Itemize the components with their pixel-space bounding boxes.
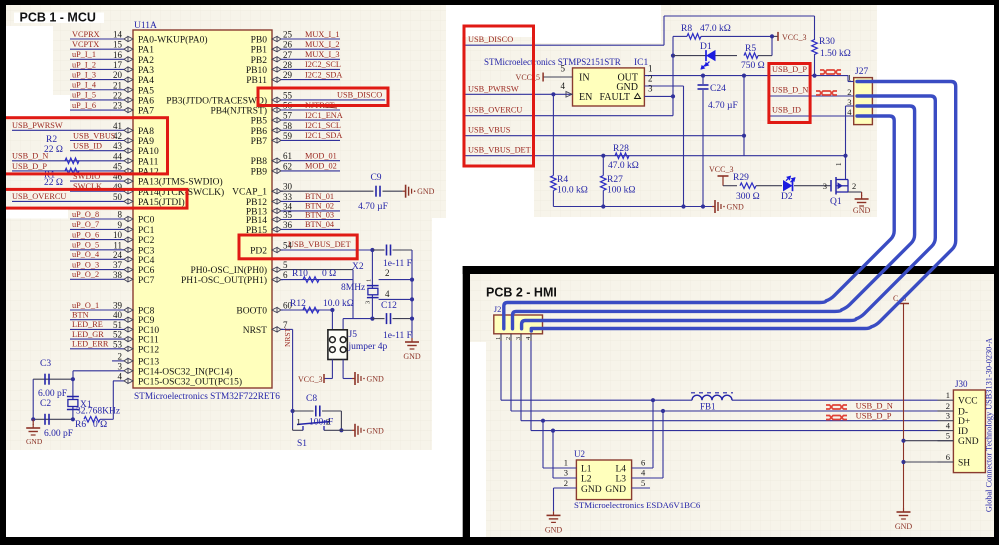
svg-text:uP_O_7: uP_O_7	[72, 220, 99, 229]
svg-text:PC8: PC8	[138, 307, 155, 317]
svg-text:22 Ω: 22 Ω	[44, 145, 63, 155]
svg-text:6.00 pF: 6.00 pF	[38, 389, 67, 399]
svg-text:1: 1	[946, 390, 950, 400]
svg-text:PA6: PA6	[138, 96, 154, 106]
svg-text:300 Ω: 300 Ω	[736, 192, 760, 202]
svg-text:IN: IN	[579, 73, 590, 84]
svg-text:R30: R30	[819, 37, 835, 47]
svg-text:47.0 kΩ: 47.0 kΩ	[700, 24, 731, 34]
svg-text:5: 5	[641, 478, 645, 488]
svg-text:C24: C24	[710, 84, 726, 94]
svg-text:40: 40	[113, 310, 123, 320]
svg-text:uP_I_1: uP_I_1	[72, 50, 96, 59]
svg-text:1: 1	[648, 64, 653, 74]
svg-text:750 Ω: 750 Ω	[741, 61, 765, 71]
svg-text:3: 3	[515, 337, 522, 340]
svg-text:PC7: PC7	[138, 276, 155, 286]
svg-text:4.70 µF: 4.70 µF	[708, 101, 738, 111]
svg-text:52: 52	[113, 330, 122, 340]
svg-text:GND: GND	[853, 206, 871, 215]
svg-text:J27: J27	[855, 67, 868, 77]
svg-text:33: 33	[283, 192, 293, 202]
svg-text:1: 1	[564, 458, 568, 468]
svg-text:BOOT0: BOOT0	[236, 307, 267, 317]
svg-text:PC3: PC3	[138, 246, 155, 256]
svg-text:uP_O_8: uP_O_8	[72, 210, 99, 219]
svg-text:5: 5	[946, 431, 950, 441]
svg-text:PB9: PB9	[251, 167, 268, 177]
svg-text:NRST: NRST	[283, 327, 292, 347]
svg-text:GND: GND	[727, 203, 745, 212]
svg-text:4.70 µF: 4.70 µF	[358, 202, 388, 212]
svg-text:0 Ω: 0 Ω	[322, 269, 336, 279]
svg-text:1: 1	[495, 337, 502, 340]
svg-text:LED_RE: LED_RE	[72, 320, 103, 329]
svg-text:I2C2_SCL: I2C2_SCL	[305, 60, 341, 69]
svg-text:29: 29	[283, 70, 293, 80]
svg-text:61: 61	[283, 151, 292, 161]
svg-text:uP_I_4: uP_I_4	[72, 81, 97, 90]
svg-text:R2: R2	[46, 135, 57, 145]
svg-text:GND: GND	[26, 437, 43, 446]
svg-text:GND: GND	[417, 187, 435, 196]
svg-text:PH0-OSC_IN(PH0): PH0-OSC_IN(PH0)	[190, 265, 267, 276]
svg-text:PC15-OSC32_OUT(PC15): PC15-OSC32_OUT(PC15)	[138, 376, 242, 387]
svg-text:PA8: PA8	[138, 127, 154, 137]
svg-text:uP_O_6: uP_O_6	[72, 230, 99, 239]
svg-text:R8: R8	[681, 24, 692, 34]
svg-text:EN: EN	[579, 92, 592, 103]
svg-text:PA13(JTMS-SWDIO): PA13(JTMS-SWDIO)	[138, 177, 223, 188]
svg-text:C9: C9	[370, 173, 381, 183]
svg-text:Global Connector Technology US: Global Connector Technology USB3131-30-0…	[985, 338, 994, 512]
svg-text:USB_VBUS_DET: USB_VBUS_DET	[468, 146, 531, 155]
svg-text:10.0 kΩ: 10.0 kΩ	[557, 186, 588, 196]
svg-text:D+: D+	[958, 417, 970, 427]
svg-text:USB_D_P: USB_D_P	[12, 162, 47, 171]
svg-text:STMicroelectronics STM32F722RE: STMicroelectronics STM32F722RET6	[134, 392, 280, 402]
svg-text:USB_OVERCU: USB_OVERCU	[12, 192, 66, 201]
svg-text:24: 24	[113, 250, 123, 260]
svg-text:23: 23	[113, 101, 123, 111]
svg-text:PB3(JTDO/TRACESWD): PB3(JTDO/TRACESWD)	[166, 95, 267, 106]
svg-text:35: 35	[283, 210, 293, 220]
svg-text:PC11: PC11	[138, 336, 159, 346]
svg-text:PA5: PA5	[138, 86, 154, 96]
svg-text:C3: C3	[40, 359, 51, 369]
svg-text:VCC_3: VCC_3	[782, 33, 806, 42]
svg-text:Q1: Q1	[830, 197, 842, 207]
svg-text:NRST: NRST	[243, 326, 267, 336]
svg-text:3: 3	[946, 411, 950, 421]
svg-text:SH: SH	[958, 459, 970, 469]
svg-text:38: 38	[113, 270, 123, 280]
svg-text:2: 2	[326, 417, 330, 427]
svg-text:L2: L2	[581, 475, 592, 485]
svg-text:PC2: PC2	[138, 236, 155, 246]
svg-text:BTN: BTN	[72, 311, 89, 320]
svg-text:25: 25	[283, 30, 293, 40]
svg-text:6: 6	[283, 270, 288, 280]
svg-text:2: 2	[385, 268, 390, 278]
svg-text:21: 21	[113, 80, 122, 90]
svg-text:R5: R5	[745, 44, 756, 54]
svg-text:45: 45	[113, 161, 123, 171]
svg-text:USB_ID: USB_ID	[772, 106, 801, 115]
svg-text:PB8: PB8	[251, 157, 268, 167]
svg-text:MOD_02: MOD_02	[305, 162, 337, 171]
svg-text:PC13: PC13	[138, 357, 159, 367]
svg-text:R12: R12	[290, 299, 306, 309]
svg-text:PA9: PA9	[138, 137, 154, 147]
svg-text:uP_I_5: uP_I_5	[72, 91, 96, 100]
svg-text:2: 2	[648, 74, 653, 84]
svg-text:PB14: PB14	[246, 216, 267, 226]
svg-text:USB_DISCO: USB_DISCO	[337, 91, 382, 100]
svg-text:PC14-OSC32_IN(PC14): PC14-OSC32_IN(PC14)	[138, 366, 233, 377]
svg-text:PCB 2 - HMI: PCB 2 - HMI	[486, 286, 557, 300]
svg-text:6: 6	[641, 458, 645, 468]
svg-text:FB1: FB1	[700, 402, 716, 412]
svg-text:LED_GR: LED_GR	[72, 330, 104, 339]
svg-text:58: 58	[283, 121, 293, 131]
svg-text:20: 20	[113, 70, 123, 80]
svg-text:J30: J30	[955, 379, 968, 389]
svg-text:PB2: PB2	[251, 56, 268, 66]
svg-text:I2C1_SCL: I2C1_SCL	[305, 121, 341, 130]
svg-text:62: 62	[283, 161, 292, 171]
svg-text:4: 4	[385, 289, 390, 299]
svg-text:6: 6	[946, 452, 950, 462]
svg-text:6.00 pF: 6.00 pF	[44, 429, 73, 439]
svg-text:PA7: PA7	[138, 107, 154, 117]
svg-text:50: 50	[113, 192, 123, 202]
svg-text:uP_O_2: uP_O_2	[72, 270, 99, 279]
svg-text:LED_ERR: LED_ERR	[72, 340, 109, 349]
svg-text:USB_VBUS_DET: USB_VBUS_DET	[288, 240, 351, 249]
svg-text:3: 3	[823, 181, 827, 191]
svg-text:1.50 kΩ: 1.50 kΩ	[820, 49, 851, 59]
svg-text:GND: GND	[545, 525, 563, 534]
svg-text:USB_D_N: USB_D_N	[772, 86, 808, 95]
svg-text:16: 16	[113, 50, 123, 60]
svg-text:4: 4	[561, 81, 566, 91]
svg-text:ID: ID	[958, 427, 968, 437]
svg-text:jumper 4p: jumper 4p	[348, 342, 388, 352]
svg-text:PA15(JTDI): PA15(JTDI)	[138, 197, 185, 208]
svg-text:59: 59	[283, 131, 293, 141]
svg-text:I2C1_SDA: I2C1_SDA	[305, 131, 342, 140]
svg-text:VCPRX: VCPRX	[72, 30, 100, 39]
svg-text:PC10: PC10	[138, 326, 159, 336]
svg-text:R29: R29	[733, 173, 749, 183]
svg-text:PC4: PC4	[138, 256, 155, 266]
svg-text:5: 5	[561, 64, 566, 74]
svg-text:VCC: VCC	[958, 397, 978, 407]
svg-text:USB_OVERCU: USB_OVERCU	[468, 106, 522, 115]
svg-text:X2: X2	[352, 262, 364, 272]
svg-text:D1: D1	[700, 42, 712, 52]
svg-text:PD2: PD2	[250, 247, 267, 257]
svg-text:PB1: PB1	[251, 46, 268, 56]
svg-text:GND: GND	[605, 485, 626, 495]
svg-text:36: 36	[283, 220, 293, 230]
svg-text:2: 2	[946, 401, 950, 411]
svg-text:26: 26	[283, 40, 293, 50]
svg-text:U11A: U11A	[134, 21, 157, 31]
svg-text:57: 57	[283, 111, 293, 121]
svg-text:100 kΩ: 100 kΩ	[607, 186, 635, 196]
svg-text:GND: GND	[581, 485, 602, 495]
svg-text:17: 17	[113, 60, 123, 70]
svg-text:R27: R27	[607, 175, 623, 185]
svg-text:37: 37	[113, 260, 123, 270]
svg-text:PB12: PB12	[246, 198, 267, 208]
svg-text:C2: C2	[40, 399, 51, 409]
svg-text:BTN_01: BTN_01	[305, 192, 334, 201]
svg-text:PB4(NJTRST): PB4(NJTRST)	[211, 106, 267, 117]
svg-text:USB_VBUS: USB_VBUS	[73, 131, 116, 140]
svg-text:2: 2	[118, 351, 123, 361]
svg-text:uP_I_3: uP_I_3	[72, 70, 96, 79]
svg-text:uP_I_2: uP_I_2	[72, 60, 96, 69]
svg-text:PC12: PC12	[138, 345, 159, 355]
svg-text:USB_D_P: USB_D_P	[772, 65, 807, 74]
svg-text:22 Ω: 22 Ω	[44, 178, 63, 188]
svg-text:39: 39	[113, 301, 123, 311]
svg-text:PA2: PA2	[138, 56, 154, 66]
svg-text:USB_VBUS: USB_VBUS	[468, 126, 511, 135]
svg-text:uP_O_4: uP_O_4	[72, 250, 100, 259]
svg-text:VCC_3: VCC_3	[298, 375, 322, 384]
svg-text:27: 27	[283, 50, 293, 60]
svg-text:2: 2	[505, 337, 512, 340]
svg-text:3: 3	[564, 468, 568, 478]
svg-text:VCC_3: VCC_3	[709, 165, 733, 174]
svg-text:PA4: PA4	[138, 76, 154, 86]
svg-text:9: 9	[118, 220, 123, 230]
svg-text:GND: GND	[403, 352, 421, 361]
svg-text:I2C1_ENA: I2C1_ENA	[305, 111, 343, 120]
svg-text:PA1: PA1	[138, 46, 154, 56]
svg-text:PCB 1 - MCU: PCB 1 - MCU	[20, 11, 96, 25]
svg-text:I2C2_SDA: I2C2_SDA	[305, 70, 342, 79]
svg-text:3: 3	[118, 361, 123, 371]
svg-text:3: 3	[648, 84, 653, 94]
svg-text:uP_O_1: uP_O_1	[72, 301, 99, 310]
svg-text:USB_DISCO: USB_DISCO	[468, 35, 513, 44]
svg-text:FAULT: FAULT	[599, 92, 630, 103]
svg-text:1: 1	[366, 279, 373, 282]
svg-text:S1: S1	[297, 439, 307, 449]
svg-text:PA11: PA11	[138, 157, 159, 167]
svg-text:USB_D_P: USB_D_P	[856, 410, 892, 420]
svg-text:GND: GND	[367, 375, 385, 384]
svg-text:10: 10	[113, 230, 123, 240]
svg-text:STMicroelectronics STMPS2151ST: STMicroelectronics STMPS2151STR	[484, 57, 621, 67]
svg-text:VCPTX: VCPTX	[72, 40, 99, 49]
svg-text:BTN_03: BTN_03	[305, 210, 334, 219]
svg-text:5: 5	[283, 260, 288, 270]
svg-text:2: 2	[852, 181, 856, 191]
svg-text:BTN_04: BTN_04	[305, 220, 335, 229]
svg-text:14: 14	[113, 30, 123, 40]
svg-text:L4: L4	[615, 465, 626, 475]
svg-text:51: 51	[113, 320, 122, 330]
svg-text:47.0 kΩ: 47.0 kΩ	[608, 161, 639, 171]
svg-text:2: 2	[564, 478, 568, 488]
svg-text:1: 1	[835, 162, 843, 166]
svg-text:R10: R10	[292, 269, 308, 279]
svg-text:MUX_I_3: MUX_I_3	[305, 50, 340, 59]
svg-text:3: 3	[365, 301, 372, 304]
svg-text:43: 43	[113, 141, 123, 151]
svg-text:PC0: PC0	[138, 216, 155, 226]
svg-text:PA3: PA3	[138, 66, 154, 76]
svg-text:4: 4	[118, 371, 123, 381]
svg-text:L3: L3	[615, 475, 626, 485]
svg-text:uP_O_3: uP_O_3	[72, 260, 99, 269]
svg-text:L1: L1	[581, 465, 592, 475]
svg-text:30: 30	[283, 182, 293, 192]
svg-text:41: 41	[113, 121, 122, 131]
svg-text:IC1: IC1	[634, 58, 649, 68]
svg-text:C8: C8	[306, 394, 317, 404]
svg-text:22: 22	[113, 90, 122, 100]
svg-text:USB_ID: USB_ID	[73, 141, 102, 150]
svg-text:USB_PWRSW: USB_PWRSW	[468, 84, 519, 93]
svg-text:55: 55	[283, 90, 293, 100]
svg-text:R6: R6	[75, 420, 86, 430]
svg-text:PB0: PB0	[251, 36, 268, 46]
svg-text:PB6: PB6	[251, 127, 268, 137]
svg-text:1e-11 F: 1e-11 F	[383, 331, 412, 341]
svg-text:USB_D_N: USB_D_N	[856, 401, 893, 411]
svg-text:D-: D-	[958, 408, 968, 418]
svg-text:PC1: PC1	[138, 226, 155, 236]
svg-text:1: 1	[297, 417, 301, 427]
svg-text:USB_PWRSW: USB_PWRSW	[12, 121, 63, 130]
svg-text:uP_O_5: uP_O_5	[72, 241, 99, 250]
svg-text:0 Ω: 0 Ω	[93, 420, 107, 430]
svg-text:STMicroelectronics ESDA6V1BC6: STMicroelectronics ESDA6V1BC6	[574, 500, 701, 510]
svg-text:uP_I_6: uP_I_6	[72, 101, 96, 110]
svg-text:PB5: PB5	[251, 117, 268, 127]
svg-text:C12: C12	[381, 301, 397, 311]
svg-text:PC9: PC9	[138, 316, 155, 326]
svg-text:MOD_01: MOD_01	[305, 152, 337, 161]
svg-text:PB11: PB11	[246, 76, 267, 86]
svg-text:R4: R4	[557, 175, 568, 185]
svg-text:8: 8	[118, 210, 123, 220]
svg-text:53: 53	[113, 339, 123, 349]
svg-text:44: 44	[113, 151, 123, 161]
svg-text:28: 28	[283, 60, 293, 70]
svg-text:10.0 kΩ: 10.0 kΩ	[323, 299, 354, 309]
svg-text:PA10: PA10	[138, 147, 159, 157]
svg-text:VCC_5: VCC_5	[516, 73, 540, 82]
svg-text:11: 11	[113, 240, 122, 250]
svg-text:PC6: PC6	[138, 266, 155, 276]
svg-text:R28: R28	[613, 144, 629, 154]
svg-text:15: 15	[113, 40, 123, 50]
svg-text:VCAP_1: VCAP_1	[232, 188, 267, 198]
svg-text:PH1-OSC_OUT(PH1): PH1-OSC_OUT(PH1)	[181, 275, 267, 286]
svg-text:D2: D2	[781, 192, 793, 202]
svg-text:MUX_I_2: MUX_I_2	[305, 40, 340, 49]
svg-text:MUX_I_1: MUX_I_1	[305, 30, 340, 39]
svg-text:PA0-WKUP(PA0): PA0-WKUP(PA0)	[138, 35, 208, 46]
svg-text:J5: J5	[349, 330, 358, 340]
svg-text:PB7: PB7	[251, 137, 268, 147]
svg-text:GND: GND	[895, 522, 913, 531]
svg-text:J2: J2	[494, 304, 502, 314]
svg-text:U2: U2	[574, 449, 585, 459]
svg-text:GND: GND	[958, 437, 979, 447]
svg-text:GND: GND	[367, 426, 385, 435]
svg-text:PB10: PB10	[246, 66, 267, 76]
svg-text:USB_D_N: USB_D_N	[12, 152, 48, 161]
